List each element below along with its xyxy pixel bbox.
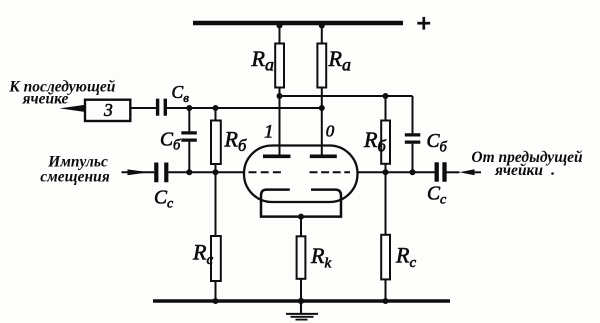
wire: Rb-left vertical — [215, 108, 217, 172]
junction dot grid right at Cb — [410, 169, 416, 175]
period after right label — [551, 172, 554, 175]
anode plate 0 — [310, 154, 337, 158]
grid dashed line right — [310, 171, 351, 173]
resistor Rc right body — [381, 235, 390, 280]
wire: bias input to Cs-left — [122, 171, 155, 173]
junction dot rail left — [277, 23, 283, 29]
svg-text:ячейке: ячейке — [22, 91, 69, 108]
cathode with common staple — [261, 190, 341, 217]
svg-text:ячейки: ячейки — [494, 162, 543, 179]
top power rail (+) — [193, 21, 403, 25]
junction dot rail right — [319, 23, 325, 29]
tube envelope U1 — [244, 146, 358, 203]
svg-text:1: 1 — [264, 122, 274, 143]
anode plate 1 — [263, 154, 291, 158]
wire: line B (anode 0 to Cv) — [167, 107, 322, 109]
junction dot line A left — [277, 93, 283, 99]
svg-text:0: 0 — [326, 122, 335, 141]
wire: Rb-right / Rc-right vertical — [385, 96, 387, 300]
svg-text:Rб: Rб — [224, 127, 247, 156]
capacitor Cb left plates — [181, 133, 197, 140]
capacitor Cs right plates — [437, 162, 445, 182]
junction dot line B at Cb left — [186, 105, 192, 111]
arrow from previous cell — [459, 169, 474, 175]
wire: Cb-left top lead — [188, 108, 190, 131]
capacitor Cv plates — [158, 99, 166, 116]
wire: line A corner down to Cb right — [412, 96, 414, 133]
resistor Ra right body — [317, 44, 326, 88]
block box 3 — [85, 100, 130, 121]
svg-text:Rk: Rk — [310, 243, 331, 272]
resistor Rb left body — [211, 121, 221, 165]
junction dot grid left at Rb — [213, 169, 219, 175]
wire: right anode vertical (rail to anode plate) — [321, 23, 323, 156]
bottom rail — [153, 299, 450, 303]
svg-text:Ra: Ra — [328, 46, 351, 74]
resistor Ra left body — [275, 44, 284, 88]
grid dashed line left — [249, 171, 282, 173]
junction dot bottom rail left — [213, 298, 219, 304]
junction dot line B at Rb left — [213, 105, 219, 111]
wire: Cb-right bottom lead — [412, 144, 414, 173]
arrow bias input — [128, 169, 149, 175]
junction dot cathode — [298, 214, 304, 220]
resistor Rk body — [297, 236, 306, 278]
wire: Rk to bottom rail — [300, 279, 302, 300]
svg-text:Ra: Ra — [251, 46, 274, 74]
capacitor Cs left plates — [156, 163, 166, 183]
wire: Cs-left to tube grid — [168, 171, 244, 173]
wire: cathode to Rk — [300, 217, 302, 237]
svg-text:Rc: Rc — [395, 243, 416, 272]
junction dot grid right at Rb — [383, 169, 389, 175]
svg-text:3: 3 — [103, 100, 113, 120]
svg-text:Cб: Cб — [427, 131, 448, 155]
wire: right grid to Cs-right — [357, 171, 435, 173]
resistor Rc left body — [211, 236, 221, 281]
wire: Cs-right to arrow — [446, 171, 459, 173]
junction dot line B at anode 0 — [319, 105, 325, 111]
wire: stub after right arrow — [475, 171, 481, 173]
wire: left anode vertical (rail to anode plate) — [279, 23, 281, 156]
ground — [300, 301, 302, 314]
junction dot line A at Rb right — [383, 93, 389, 99]
svg-text:Cc: Cc — [427, 184, 447, 208]
wire: Cb-left bottom lead — [188, 142, 190, 173]
junction dot grid left at Cb — [186, 169, 192, 175]
wire: Rc-left vertical (grid node to bottom rail) — [215, 172, 217, 300]
svg-text:Cб: Cб — [160, 130, 181, 154]
svg-text:смещения: смещения — [40, 169, 109, 186]
wire: line A (anode 1 to right coupling) — [280, 95, 413, 97]
svg-text:Cc: Cc — [154, 188, 174, 212]
resistor Rb right body — [381, 121, 390, 164]
svg-text:Cв: Cв — [172, 82, 190, 105]
wire: box 3 to Cv — [130, 107, 156, 109]
capacitor Cb right plates — [405, 135, 421, 142]
junction dot bottom rail right — [383, 298, 389, 304]
arrow out to next cell — [60, 105, 85, 112]
junction dot bottom rail center — [298, 298, 304, 304]
plus sign label — [417, 17, 430, 30]
